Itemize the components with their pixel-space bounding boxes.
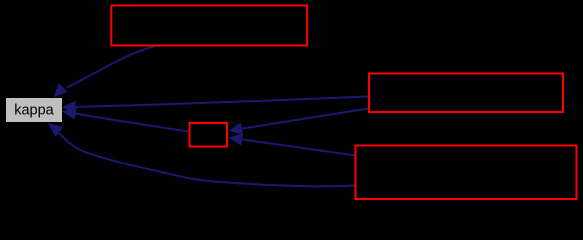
edge: top red box -> kappa (spline) [67, 46, 156, 88]
edge: upper-right red box -> kappa (straight) [76, 97, 368, 107]
edge: lower-right red box -> kappa (long bottom arc) [59, 133, 355, 186]
arrowhead at kappa right edge, upper (from upper-right box) [62, 101, 76, 114]
node: upper-right red box (empty label) [369, 74, 563, 113]
node kappa (gray filled box) [6, 98, 62, 122]
edge: upper-right red box -> small red box [242, 109, 368, 129]
arrowhead at kappa bottom edge (from lower-right box arc) [48, 123, 63, 137]
arrowhead at small box right edge, lower (from lower-right box) [229, 133, 244, 145]
node: lower-right red box (empty label) [356, 146, 577, 200]
node: small middle red box (empty label) [190, 123, 228, 147]
arrowhead at kappa top-right (from top box) [54, 83, 68, 97]
svg-text:kappa: kappa [14, 103, 54, 119]
arrowhead at kappa right edge, lower (from small box) [62, 107, 77, 119]
edge: small red box -> kappa (straight) [76, 114, 189, 132]
node: top red box (empty label) [111, 6, 307, 46]
arrowhead at small box right edge, upper (from upper-right box) [229, 123, 244, 135]
edge: lower-right red box -> small red box [242, 140, 355, 156]
